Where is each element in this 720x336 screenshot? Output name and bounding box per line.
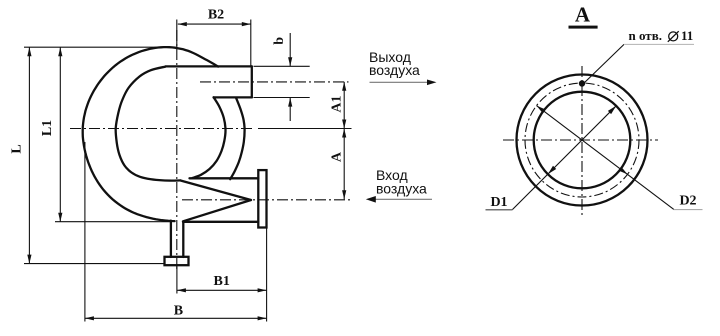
- support leg left edge: [170, 221, 172, 257]
- b dimension line upper segment: [289, 33, 291, 66]
- support leg right edge: [182, 222, 184, 257]
- arrows L1: [58, 47, 62, 56]
- outlet duct centerline: [200, 81, 349, 83]
- n otv leader line: [583, 44, 625, 84]
- arrows A: [342, 129, 346, 138]
- inlet inner circle: [534, 92, 631, 189]
- view A vertical centerline: [581, 66, 583, 215]
- svg-text:A: A: [330, 151, 345, 162]
- B left extension line: [84, 142, 86, 322]
- housing opening curve right outer: [230, 98, 244, 179]
- arrows B1: [177, 288, 186, 292]
- svg-text:n отв.: n отв.: [629, 28, 662, 43]
- vertical centerline of fan: [176, 30, 178, 272]
- D2 label underline: [674, 209, 703, 211]
- B/B1 right extension line: [266, 229, 268, 322]
- svg-text:воздуха: воздуха: [369, 62, 420, 78]
- B1 left extension line (leg centerline): [176, 267, 178, 294]
- b dimension line lower segment: [289, 98, 291, 121]
- diameter symbol: [668, 31, 679, 42]
- fan volute inner wall (C curve): [116, 67, 181, 181]
- horizontal centerline of fan: [70, 128, 252, 130]
- outlet duct bottom edge: [214, 96, 252, 98]
- bolt circle (dash-dot): [525, 83, 639, 197]
- inlet box bottom line: [183, 221, 258, 223]
- svg-text:B2: B2: [208, 8, 224, 23]
- b upper extension line: [254, 65, 310, 67]
- svg-text:B1: B1: [214, 274, 230, 289]
- arrows A1: [342, 82, 346, 91]
- inlet cone top edge: [181, 181, 252, 201]
- D1 diameter line with leader: [513, 106, 617, 210]
- outlet duct top edge: [166, 65, 252, 67]
- arrows B: [85, 316, 94, 320]
- foot plate: [165, 257, 189, 265]
- B2 dimension line: [178, 23, 251, 25]
- air inlet arrow: [375, 198, 432, 200]
- B2 left extension (centerline up): [176, 20, 178, 48]
- svg-text:A1: A1: [330, 95, 345, 112]
- D2 diameter line with leader: [537, 106, 675, 210]
- fan volute outer spiral: [83, 47, 218, 221]
- arrows b: [288, 57, 292, 66]
- L dimension line: [28, 47, 30, 263]
- B dimension line: [85, 317, 267, 319]
- top extension line (L/L1): [24, 46, 166, 48]
- svg-text:А: А: [575, 3, 591, 27]
- B2 right extension line: [250, 20, 252, 67]
- inlet flange plate: [258, 170, 266, 227]
- A/A1 extension line at fan centerline: [258, 128, 352, 130]
- inlet box top line: [190, 177, 259, 179]
- arrows D1 (45 deg on inner circle): [548, 166, 556, 174]
- svg-text:B: B: [174, 304, 183, 319]
- arrows L: [27, 47, 31, 56]
- svg-text:b: b: [272, 37, 287, 45]
- inlet cone bottom edge: [183, 200, 251, 221]
- svg-text:воздуха: воздуха: [376, 181, 427, 197]
- bolt hole dot: [579, 80, 585, 86]
- svg-text:D2: D2: [679, 194, 696, 209]
- L1 bottom extension line: [55, 221, 172, 223]
- A dimension line: [343, 129, 345, 200]
- svg-text:L: L: [10, 144, 25, 153]
- outlet duct right end edge: [251, 66, 253, 97]
- view A horizontal centerline: [503, 139, 658, 141]
- housing opening curve right inner: [193, 97, 226, 178]
- L1 dimension line: [59, 47, 61, 222]
- svg-text:D1: D1: [490, 195, 507, 210]
- flange outer circle: [517, 75, 648, 206]
- D1 label underline: [486, 209, 513, 211]
- A1 dimension line: [343, 82, 345, 129]
- air outlet arrow: [370, 81, 430, 83]
- arrows D2 (37 deg on bolt circle): [619, 167, 628, 175]
- svg-text:11: 11: [681, 28, 693, 43]
- n otv label shelf: [624, 43, 694, 45]
- svg-text:L1: L1: [40, 120, 55, 136]
- view label A underline: [569, 26, 598, 29]
- L bottom extension line: [24, 263, 165, 265]
- B1 dimension line: [177, 289, 267, 291]
- arrows B2: [178, 22, 187, 26]
- b lower extension line: [254, 97, 310, 99]
- inlet centerline: [182, 199, 352, 201]
